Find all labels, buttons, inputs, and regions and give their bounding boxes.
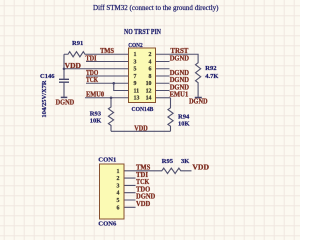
svg-text:3: 3 [134, 59, 137, 65]
svg-text:TMS: TMS [100, 48, 114, 55]
svg-text:DGND: DGND [170, 70, 189, 77]
svg-text:VDD: VDD [65, 63, 81, 70]
svg-text:R94: R94 [178, 113, 190, 120]
svg-text:3: 3 [117, 183, 120, 189]
svg-text:VDD: VDD [134, 126, 148, 133]
svg-text:5: 5 [117, 198, 120, 204]
svg-text:1: 1 [134, 52, 137, 58]
svg-text:R92: R92 [205, 65, 216, 72]
svg-text:DGND: DGND [189, 99, 208, 106]
svg-text:TRST: TRST [170, 48, 188, 55]
svg-text:6: 6 [149, 67, 152, 73]
svg-text:DGND: DGND [170, 55, 189, 62]
svg-text:4.7K: 4.7K [205, 73, 218, 80]
svg-text:8: 8 [149, 74, 152, 80]
svg-text:11: 11 [134, 88, 140, 94]
svg-text:EMU1: EMU1 [170, 92, 189, 99]
svg-text:TDO: TDO [86, 70, 99, 77]
svg-text:13: 13 [134, 96, 140, 102]
svg-text:2: 2 [149, 52, 152, 58]
svg-text:10: 10 [146, 81, 152, 87]
svg-text:TDO: TDO [136, 186, 151, 193]
svg-text:EMU0: EMU0 [86, 92, 105, 99]
svg-text:2: 2 [117, 176, 120, 182]
svg-text:3K: 3K [181, 158, 189, 165]
svg-text:R93: R93 [90, 111, 102, 118]
svg-text:R95: R95 [162, 158, 174, 165]
svg-text:9: 9 [134, 81, 137, 87]
svg-text:5: 5 [134, 67, 137, 73]
svg-text:TDI: TDI [136, 172, 148, 179]
svg-text:DGND: DGND [136, 194, 155, 201]
svg-text:TMS: TMS [136, 165, 150, 172]
svg-text:R91: R91 [72, 40, 83, 47]
svg-text:CON2: CON2 [128, 42, 143, 49]
svg-text:TCK: TCK [136, 179, 150, 186]
svg-text:VDD: VDD [192, 165, 209, 172]
svg-text:NO TRST PIN: NO TRST PIN [124, 27, 162, 36]
svg-text:4: 4 [117, 191, 120, 197]
svg-text:6: 6 [117, 205, 120, 211]
svg-text:CON1: CON1 [98, 156, 116, 163]
svg-text:TDI: TDI [86, 55, 97, 62]
svg-text:DGND: DGND [56, 99, 75, 106]
svg-text:DGND: DGND [170, 77, 189, 84]
svg-text:CON6: CON6 [98, 220, 117, 227]
svg-text:12: 12 [146, 88, 152, 94]
svg-text:104/25V/X7R: 104/25V/X7R [41, 80, 48, 118]
svg-text:1: 1 [117, 169, 120, 175]
svg-text:7: 7 [134, 74, 137, 80]
svg-text:DGND: DGND [170, 84, 189, 91]
svg-text:Diff STM32 (connect to the gr: Diff STM32 (connect to the ground direct… [93, 3, 219, 12]
svg-text:10K: 10K [178, 120, 190, 127]
svg-text:CON14B: CON14B [132, 106, 154, 113]
svg-text:VDD: VDD [136, 201, 150, 208]
svg-text:C146: C146 [40, 73, 55, 80]
svg-text:14: 14 [146, 96, 152, 102]
svg-text:10K: 10K [90, 118, 102, 125]
svg-text:TCK: TCK [86, 77, 99, 84]
svg-text:4: 4 [149, 59, 152, 65]
